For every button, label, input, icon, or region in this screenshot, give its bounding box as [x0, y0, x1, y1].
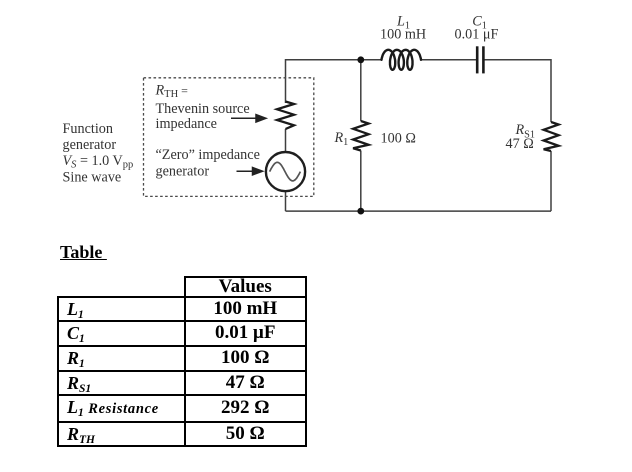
wire R1 branch bottom: [360, 151, 362, 212]
arrow to generator: [237, 168, 263, 175]
wire top-right segment (capacitor to right rail): [484, 60, 551, 122]
resistor RS1: [544, 122, 559, 151]
inductor L1 coil: [382, 50, 422, 70]
wire top-middle segment (inductor to capacitor): [421, 59, 477, 61]
table title: [60, 242, 107, 263]
source generator circle: [266, 152, 305, 191]
wire R1 branch top: [360, 60, 362, 121]
resistor R1: [353, 121, 369, 151]
dashed box: function generator boundary: [144, 78, 314, 197]
node junction top (R1 tap): [357, 56, 364, 63]
svg-text:generator: generator: [63, 137, 117, 153]
svg-text:VS = 1.0 Vpp: VS = 1.0 Vpp: [63, 153, 134, 171]
svg-text:impedance: impedance: [156, 116, 217, 132]
arrow to RTH: [231, 115, 266, 122]
svg-text:100 Ω: 100 Ω: [381, 130, 416, 146]
svg-text:R1: R1: [334, 130, 349, 148]
node junction bottom: [357, 208, 364, 215]
capacitor C1 plates: [477, 46, 483, 73]
svg-text:Thevenin source: Thevenin source: [156, 101, 250, 117]
wire bottom rail: [286, 210, 552, 212]
svg-text:0.01 μF: 0.01 μF: [455, 27, 499, 43]
svg-text:generator: generator: [156, 163, 210, 179]
wire RTH to source: [285, 129, 287, 152]
svg-text:100 mH: 100 mH: [380, 27, 426, 43]
wire source to bottom rail: [285, 191, 287, 211]
svg-text:Sine wave: Sine wave: [63, 169, 122, 185]
svg-text:RTH =: RTH =: [155, 83, 189, 101]
svg-text:Function: Function: [63, 121, 113, 137]
svg-text:47 Ω: 47 Ω: [506, 136, 534, 152]
wire right rail bottom: [550, 151, 552, 211]
svg-text:“Zero” impedance: “Zero” impedance: [156, 147, 260, 163]
resistor RTH (Thevenin source impedance): [277, 102, 294, 130]
wire top-left segment: [286, 60, 382, 103]
source generator sine wave: [270, 162, 301, 181]
